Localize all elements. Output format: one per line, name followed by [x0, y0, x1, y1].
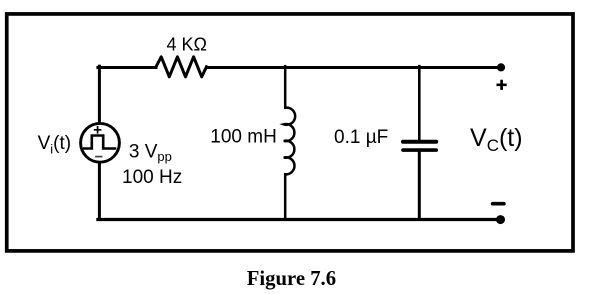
svg-text:Vi(t): Vi(t) — [38, 133, 72, 157]
svg-text:100 Hz: 100 Hz — [122, 167, 182, 188]
svg-text:0.1 µF: 0.1 µF — [334, 127, 388, 148]
svg-text:4 KΩ: 4 KΩ — [167, 34, 207, 54]
svg-text:Figure 7.6: Figure 7.6 — [247, 268, 336, 290]
svg-text:100 mH: 100 mH — [210, 126, 277, 147]
